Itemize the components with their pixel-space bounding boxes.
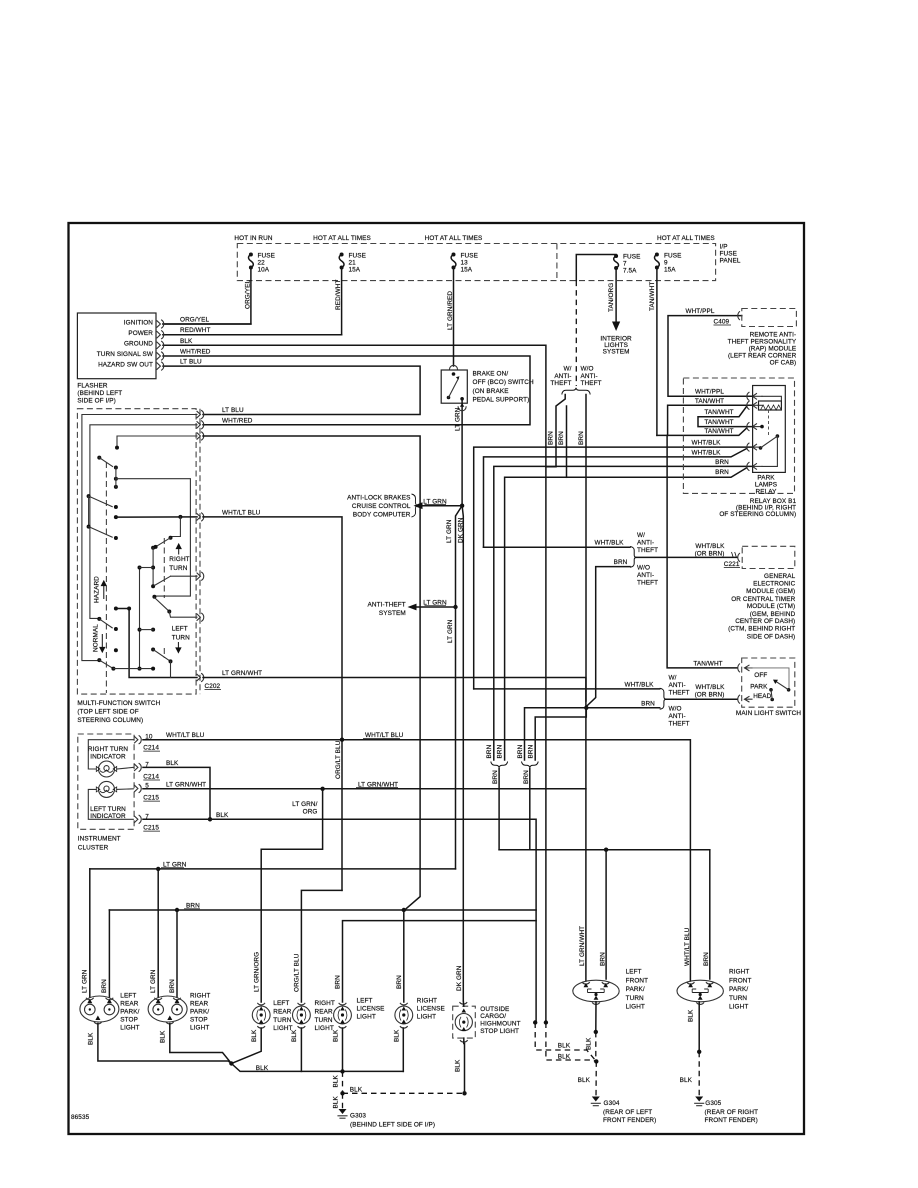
svg-text:(BEHIND LEFT SIDE OF I/P): (BEHIND LEFT SIDE OF I/P)	[350, 1122, 435, 1129]
svg-text:OUTSIDE: OUTSIDE	[480, 1006, 509, 1013]
svg-text:PARK: PARK	[757, 475, 775, 482]
svg-text:BRN: BRN	[335, 975, 342, 989]
svg-text:FRONT: FRONT	[729, 977, 752, 984]
svg-text:BRN: BRN	[486, 744, 493, 758]
svg-text:LICENSE: LICENSE	[357, 1006, 385, 1013]
svg-text:(BEHIND LEFT: (BEHIND LEFT	[77, 390, 122, 397]
svg-text:HOT AT ALL TIMES: HOT AT ALL TIMES	[313, 235, 371, 242]
svg-text:BRN: BRN	[599, 952, 606, 966]
svg-text:WHT/LT BLU: WHT/LT BLU	[222, 509, 261, 516]
svg-text:LT GRN: LT GRN	[150, 969, 157, 993]
svg-text:(LEFT REAR CORNER: (LEFT REAR CORNER	[728, 353, 797, 360]
svg-text:REMOTE ANTI-: REMOTE ANTI-	[750, 332, 797, 339]
svg-text:TAN/ORG: TAN/ORG	[608, 283, 615, 312]
svg-text:BRN: BRN	[497, 744, 504, 758]
svg-text:THEFT: THEFT	[669, 689, 690, 696]
svg-text:G305: G305	[705, 1100, 721, 1107]
svg-text:(REAR OF LEFT: (REAR OF LEFT	[603, 1109, 652, 1116]
svg-text:BLK: BLK	[166, 760, 179, 767]
svg-text:9: 9	[664, 259, 668, 266]
svg-text:LT GRN/WHT: LT GRN/WHT	[166, 781, 206, 788]
svg-text:INSTRUMENT: INSTRUMENT	[78, 835, 121, 842]
svg-text:FUSE: FUSE	[720, 251, 737, 258]
svg-text:PARK/: PARK/	[729, 986, 748, 993]
svg-text:RIGHT: RIGHT	[729, 969, 749, 976]
svg-text:STOP LIGHT: STOP LIGHT	[480, 1028, 519, 1035]
svg-text:PEDAL SUPPORT): PEDAL SUPPORT)	[473, 397, 530, 404]
svg-text:TURN: TURN	[169, 565, 187, 572]
svg-text:7: 7	[623, 260, 627, 267]
svg-text:BLK: BLK	[558, 1053, 571, 1060]
svg-text:LT BLU: LT BLU	[222, 407, 244, 414]
svg-text:C202: C202	[205, 683, 221, 690]
svg-text:C409: C409	[714, 319, 730, 326]
svg-text:BLK: BLK	[333, 1074, 340, 1087]
svg-text:LT GRN: LT GRN	[446, 519, 453, 543]
svg-text:OR CENTRAL TIMER: OR CENTRAL TIMER	[731, 596, 795, 603]
svg-text:ANTI-THEFT: ANTI-THEFT	[368, 602, 406, 609]
svg-text:RELAY: RELAY	[756, 489, 778, 496]
svg-text:ANTI-: ANTI-	[581, 373, 598, 380]
svg-text:FLASHER: FLASHER	[77, 382, 107, 389]
svg-text:W/: W/	[669, 675, 677, 682]
svg-text:PANEL: PANEL	[720, 258, 741, 265]
svg-text:C214: C214	[143, 774, 159, 781]
svg-text:THEFT: THEFT	[550, 380, 571, 387]
svg-text:BLK: BLK	[455, 1059, 462, 1072]
svg-text:BLK: BLK	[160, 1030, 167, 1043]
svg-text:BRN: BRN	[517, 744, 524, 758]
svg-text:BRN: BRN	[614, 559, 628, 566]
svg-text:LIGHT: LIGHT	[729, 1004, 748, 1011]
svg-text:INDICATOR: INDICATOR	[90, 753, 126, 760]
svg-text:REAR: REAR	[190, 1001, 208, 1008]
svg-text:10A: 10A	[258, 266, 270, 273]
svg-text:(REAR OF RIGHT: (REAR OF RIGHT	[705, 1109, 759, 1116]
svg-text:CLUSTER: CLUSTER	[78, 844, 109, 851]
svg-text:ANTI-: ANTI-	[637, 572, 654, 579]
svg-text:FRONT FENDER): FRONT FENDER)	[603, 1117, 656, 1124]
svg-text:BRN: BRN	[547, 431, 554, 445]
svg-text:86535: 86535	[71, 1114, 90, 1121]
svg-text:BLK: BLK	[586, 1037, 593, 1050]
svg-text:MODULE (GEM): MODULE (GEM)	[746, 588, 795, 595]
svg-text:THEFT PERSONALITY: THEFT PERSONALITY	[728, 339, 797, 346]
svg-text:TAN/WHT: TAN/WHT	[704, 419, 733, 426]
svg-text:BRN: BRN	[703, 952, 710, 966]
svg-text:TURN: TURN	[315, 1017, 333, 1024]
svg-text:LEFT: LEFT	[120, 993, 136, 1000]
svg-text:TAN/WHT: TAN/WHT	[649, 282, 656, 311]
svg-text:PARK/: PARK/	[120, 1009, 139, 1016]
svg-text:HOT IN RUN: HOT IN RUN	[234, 235, 272, 242]
svg-text:LT GRN: LT GRN	[447, 619, 454, 643]
svg-text:THEFT: THEFT	[581, 380, 602, 387]
svg-text:LT GRN/ORG: LT GRN/ORG	[253, 952, 260, 992]
svg-text:BLK: BLK	[251, 1029, 258, 1042]
svg-text:WHT/BLK: WHT/BLK	[695, 684, 725, 691]
svg-text:LT GRN/RED: LT GRN/RED	[447, 291, 454, 330]
svg-text:BLK: BLK	[256, 1065, 269, 1072]
svg-text:ANTI-LOCK BRAKES: ANTI-LOCK BRAKES	[347, 494, 410, 501]
svg-text:BRN: BRN	[169, 979, 176, 993]
svg-text:FUSE: FUSE	[664, 252, 681, 259]
svg-text:C214: C214	[143, 745, 159, 752]
svg-text:BRN: BRN	[492, 770, 499, 784]
svg-text:LT BLU: LT BLU	[180, 359, 202, 366]
svg-text:RIGHT TURN: RIGHT TURN	[88, 746, 128, 753]
svg-text:TAN/WHT: TAN/WHT	[693, 660, 722, 667]
svg-text:POWER: POWER	[128, 330, 153, 337]
svg-text:ANTI-: ANTI-	[669, 713, 686, 720]
svg-text:BRN: BRN	[641, 700, 655, 707]
svg-text:ANTI-: ANTI-	[554, 373, 571, 380]
svg-text:W/: W/	[563, 366, 571, 373]
svg-text:ANTI-: ANTI-	[669, 682, 686, 689]
svg-text:BLK: BLK	[394, 1029, 401, 1042]
svg-text:HOT AT ALL TIMES: HOT AT ALL TIMES	[657, 235, 715, 242]
svg-text:STOP: STOP	[120, 1017, 138, 1024]
svg-text:C221: C221	[724, 561, 740, 568]
svg-text:C215: C215	[143, 795, 159, 802]
svg-text:WHT/LT BLU: WHT/LT BLU	[684, 927, 691, 966]
svg-text:W/O: W/O	[637, 564, 650, 571]
svg-text:C215: C215	[143, 825, 159, 832]
svg-text:TURN: TURN	[172, 634, 190, 641]
svg-text:BLK: BLK	[291, 1029, 298, 1042]
svg-text:OF CAB): OF CAB)	[770, 360, 797, 367]
svg-text:OFF: OFF	[754, 672, 767, 679]
svg-text:RED/WHT: RED/WHT	[335, 279, 342, 310]
svg-text:(GEM, BEHIND: (GEM, BEHIND	[750, 611, 796, 618]
svg-text:BRN: BRN	[396, 975, 403, 989]
svg-text:REAR: REAR	[315, 1008, 333, 1015]
svg-text:(OR BRN): (OR BRN)	[695, 551, 725, 558]
svg-text:22: 22	[258, 259, 266, 266]
svg-text:BRN: BRN	[528, 744, 535, 758]
svg-text:THEFT: THEFT	[669, 720, 690, 727]
svg-text:(TOP LEFT SIDE OF: (TOP LEFT SIDE OF	[77, 709, 138, 716]
svg-text:(ON BRAKE: (ON BRAKE	[473, 388, 509, 395]
svg-text:15A: 15A	[664, 266, 676, 273]
svg-text:BLK: BLK	[180, 338, 193, 345]
svg-text:(CTM, BEHIND RIGHT: (CTM, BEHIND RIGHT	[728, 626, 795, 633]
svg-text:PARK/: PARK/	[626, 986, 645, 993]
svg-text:BLK: BLK	[216, 812, 229, 819]
svg-text:HIGHMOUNT: HIGHMOUNT	[480, 1021, 520, 1028]
svg-text:W/O: W/O	[581, 366, 594, 373]
svg-text:BLK: BLK	[333, 1095, 340, 1108]
svg-text:LT GRN/WHT: LT GRN/WHT	[579, 926, 586, 966]
svg-text:RIGHT: RIGHT	[190, 993, 210, 1000]
svg-text:LT GRN/: LT GRN/	[292, 801, 317, 808]
svg-text:SYSTEM: SYSTEM	[603, 349, 630, 356]
svg-text:DK GRN: DK GRN	[456, 965, 463, 991]
svg-text:BLK: BLK	[88, 1032, 95, 1045]
svg-text:SIDE OF DASH): SIDE OF DASH)	[747, 634, 796, 641]
svg-text:LEFT: LEFT	[273, 1000, 289, 1007]
svg-text:BLK: BLK	[332, 1029, 339, 1042]
svg-text:WHT/PPL: WHT/PPL	[695, 389, 724, 396]
svg-text:LIGHT: LIGHT	[190, 1025, 209, 1032]
svg-text:IGNITION: IGNITION	[124, 319, 153, 326]
svg-text:CRUISE CONTROL: CRUISE CONTROL	[352, 503, 411, 510]
svg-text:LIGHT: LIGHT	[357, 1014, 376, 1021]
svg-text:WHT/BLK: WHT/BLK	[695, 543, 725, 550]
svg-text:SYSTEM: SYSTEM	[379, 610, 406, 617]
svg-text:REAR: REAR	[273, 1008, 291, 1015]
svg-text:REAR: REAR	[120, 1001, 138, 1008]
svg-text:GENERAL: GENERAL	[764, 573, 796, 580]
svg-text:TURN: TURN	[273, 1017, 291, 1024]
svg-text:WHT/LT BLU: WHT/LT BLU	[166, 732, 205, 739]
svg-text:LIGHT: LIGHT	[120, 1025, 139, 1032]
svg-text:BRN: BRN	[715, 459, 729, 466]
svg-text:(RAP) MODULE: (RAP) MODULE	[749, 346, 797, 353]
svg-text:ORG: ORG	[303, 809, 318, 816]
svg-text:LEFT TURN: LEFT TURN	[90, 806, 126, 813]
svg-text:FUSE: FUSE	[349, 252, 366, 259]
svg-text:HOT AT ALL TIMES: HOT AT ALL TIMES	[425, 235, 483, 242]
svg-text:ORG/LT BLU: ORG/LT BLU	[335, 740, 342, 779]
svg-text:MODULE (CTM): MODULE (CTM)	[747, 603, 795, 610]
svg-text:(OR BRN): (OR BRN)	[695, 692, 725, 699]
svg-text:LAMPS: LAMPS	[755, 482, 777, 489]
svg-text:FRONT FENDER): FRONT FENDER)	[705, 1117, 758, 1124]
svg-text:LEFT: LEFT	[172, 626, 188, 633]
svg-text:STOP: STOP	[190, 1017, 208, 1024]
svg-text:CARGO/: CARGO/	[480, 1013, 506, 1020]
svg-text:RIGHT: RIGHT	[169, 556, 189, 563]
svg-text:13: 13	[461, 259, 469, 266]
svg-text:HAZARD SW OUT: HAZARD SW OUT	[98, 361, 153, 368]
svg-text:OFF (BCO) SWITCH: OFF (BCO) SWITCH	[473, 379, 535, 386]
svg-text:LT GRN/WHT: LT GRN/WHT	[222, 670, 262, 677]
svg-text:TURN SIGNAL SW: TURN SIGNAL SW	[97, 351, 154, 358]
svg-text:BLK: BLK	[578, 1077, 591, 1084]
svg-text:TAN/WHT: TAN/WHT	[704, 409, 733, 416]
svg-text:BLK: BLK	[687, 1009, 694, 1022]
svg-text:PARK: PARK	[750, 684, 768, 691]
svg-text:ELECTRONIC: ELECTRONIC	[753, 581, 795, 588]
svg-text:BRAKE ON/: BRAKE ON/	[473, 371, 509, 378]
svg-text:LEFT: LEFT	[626, 969, 642, 976]
svg-text:G303: G303	[350, 1113, 366, 1120]
svg-text:WHT/BLK: WHT/BLK	[691, 449, 721, 456]
svg-text:SIDE OF I/P): SIDE OF I/P)	[77, 397, 115, 404]
svg-text:PARK/: PARK/	[190, 1009, 209, 1016]
svg-text:FUSE: FUSE	[623, 253, 640, 260]
svg-text:FUSE: FUSE	[461, 252, 478, 259]
svg-text:WHT/RED: WHT/RED	[180, 349, 211, 356]
svg-text:I/P: I/P	[720, 244, 728, 251]
svg-text:ORG/YEL: ORG/YEL	[245, 280, 252, 309]
svg-text:WHT/RED: WHT/RED	[222, 417, 253, 424]
svg-text:BLK: BLK	[350, 1087, 363, 1094]
svg-text:WHT/BLK: WHT/BLK	[624, 681, 654, 688]
svg-text:THEFT: THEFT	[637, 547, 658, 554]
svg-text:NORMAL: NORMAL	[93, 624, 100, 652]
svg-text:WHT/PPL: WHT/PPL	[685, 308, 714, 315]
svg-text:THEFT: THEFT	[637, 579, 658, 586]
svg-text:ORG/YEL: ORG/YEL	[180, 317, 209, 324]
svg-text:W/O: W/O	[669, 705, 682, 712]
svg-text:15A: 15A	[349, 266, 361, 273]
svg-text:HAZARD: HAZARD	[94, 576, 101, 603]
svg-text:WHT/BLK: WHT/BLK	[594, 540, 624, 547]
svg-text:LIGHT: LIGHT	[315, 1025, 334, 1032]
svg-text:BODY COMPUTER: BODY COMPUTER	[353, 511, 411, 518]
svg-text:LIGHT: LIGHT	[626, 1004, 645, 1011]
svg-text:BRN: BRN	[715, 469, 729, 476]
svg-text:W/: W/	[637, 532, 645, 539]
svg-text:STEERING COLUMN): STEERING COLUMN)	[77, 717, 143, 724]
svg-text:TAN/WHT: TAN/WHT	[695, 398, 724, 405]
svg-text:DK GRN: DK GRN	[457, 517, 464, 543]
svg-text:BRN: BRN	[101, 979, 108, 993]
svg-text:LT GRN: LT GRN	[455, 407, 462, 431]
svg-text:G304: G304	[604, 1100, 620, 1107]
svg-text:TURN: TURN	[729, 995, 747, 1002]
svg-text:TURN: TURN	[626, 995, 644, 1002]
svg-text:ORG/LT BLU: ORG/LT BLU	[294, 953, 301, 992]
svg-text:7.5A: 7.5A	[623, 267, 637, 274]
svg-text:BLK: BLK	[680, 1077, 693, 1084]
svg-text:BRN: BRN	[578, 431, 585, 445]
svg-text:MULTI-FUNCTION SWITCH: MULTI-FUNCTION SWITCH	[77, 700, 160, 707]
svg-text:GROUND: GROUND	[124, 341, 153, 348]
svg-text:TAN/WHT: TAN/WHT	[704, 428, 733, 435]
svg-text:LEFT: LEFT	[357, 998, 373, 1005]
svg-text:FRONT: FRONT	[626, 977, 649, 984]
svg-text:LIGHT: LIGHT	[273, 1025, 292, 1032]
svg-text:HEAD: HEAD	[753, 693, 771, 700]
svg-text:15A: 15A	[461, 266, 473, 273]
svg-text:WHT/BLK: WHT/BLK	[691, 440, 721, 447]
svg-text:RIGHT: RIGHT	[417, 998, 437, 1005]
svg-text:MAIN LIGHT SWITCH: MAIN LIGHT SWITCH	[736, 710, 801, 717]
svg-text:LICENSE: LICENSE	[417, 1006, 445, 1013]
svg-text:FUSE: FUSE	[258, 252, 275, 259]
svg-text:CENTER OF DASH): CENTER OF DASH)	[735, 618, 795, 625]
svg-text:ANTI-: ANTI-	[637, 540, 654, 547]
svg-text:BRN: BRN	[558, 431, 565, 445]
svg-text:RIGHT: RIGHT	[315, 1000, 335, 1007]
svg-text:21: 21	[349, 259, 357, 266]
svg-text:LIGHT: LIGHT	[417, 1014, 436, 1021]
svg-text:RED/WHT: RED/WHT	[180, 327, 211, 334]
svg-text:BLK: BLK	[558, 1043, 571, 1050]
svg-text:OF STEERING COLUMN): OF STEERING COLUMN)	[719, 511, 796, 518]
svg-text:BRN: BRN	[523, 770, 530, 784]
svg-text:LT GRN: LT GRN	[82, 969, 89, 993]
